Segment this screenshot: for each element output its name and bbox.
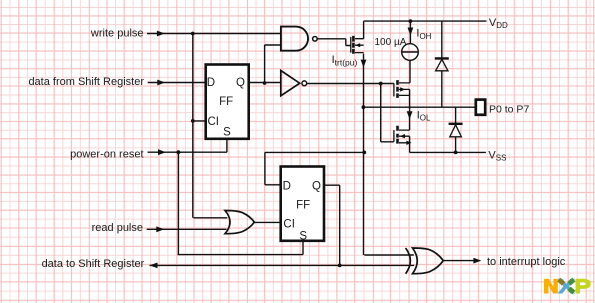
svg-text:Q: Q	[312, 181, 321, 193]
svg-text:P0 to P7: P0 to P7	[489, 103, 529, 115]
svg-text:FF: FF	[296, 199, 310, 211]
svg-text:FF: FF	[219, 96, 233, 108]
svg-text:D: D	[207, 77, 215, 89]
svg-text:power-on reset: power-on reset	[70, 148, 143, 160]
svg-text:to interrupt logic: to interrupt logic	[487, 256, 566, 268]
svg-text:Q: Q	[236, 77, 245, 89]
svg-text:read pulse: read pulse	[92, 222, 143, 234]
svg-text:S: S	[299, 230, 307, 242]
svg-text:D: D	[283, 181, 291, 193]
svg-text:S: S	[223, 127, 231, 139]
svg-text:100 µA: 100 µA	[375, 37, 407, 48]
svg-text:data from Shift Register: data from Shift Register	[28, 76, 144, 88]
svg-text:data to Shift Register: data to Shift Register	[42, 258, 145, 270]
svg-text:CI: CI	[283, 219, 295, 231]
svg-text:CI: CI	[208, 116, 220, 128]
svg-text:write pulse: write pulse	[90, 28, 144, 40]
